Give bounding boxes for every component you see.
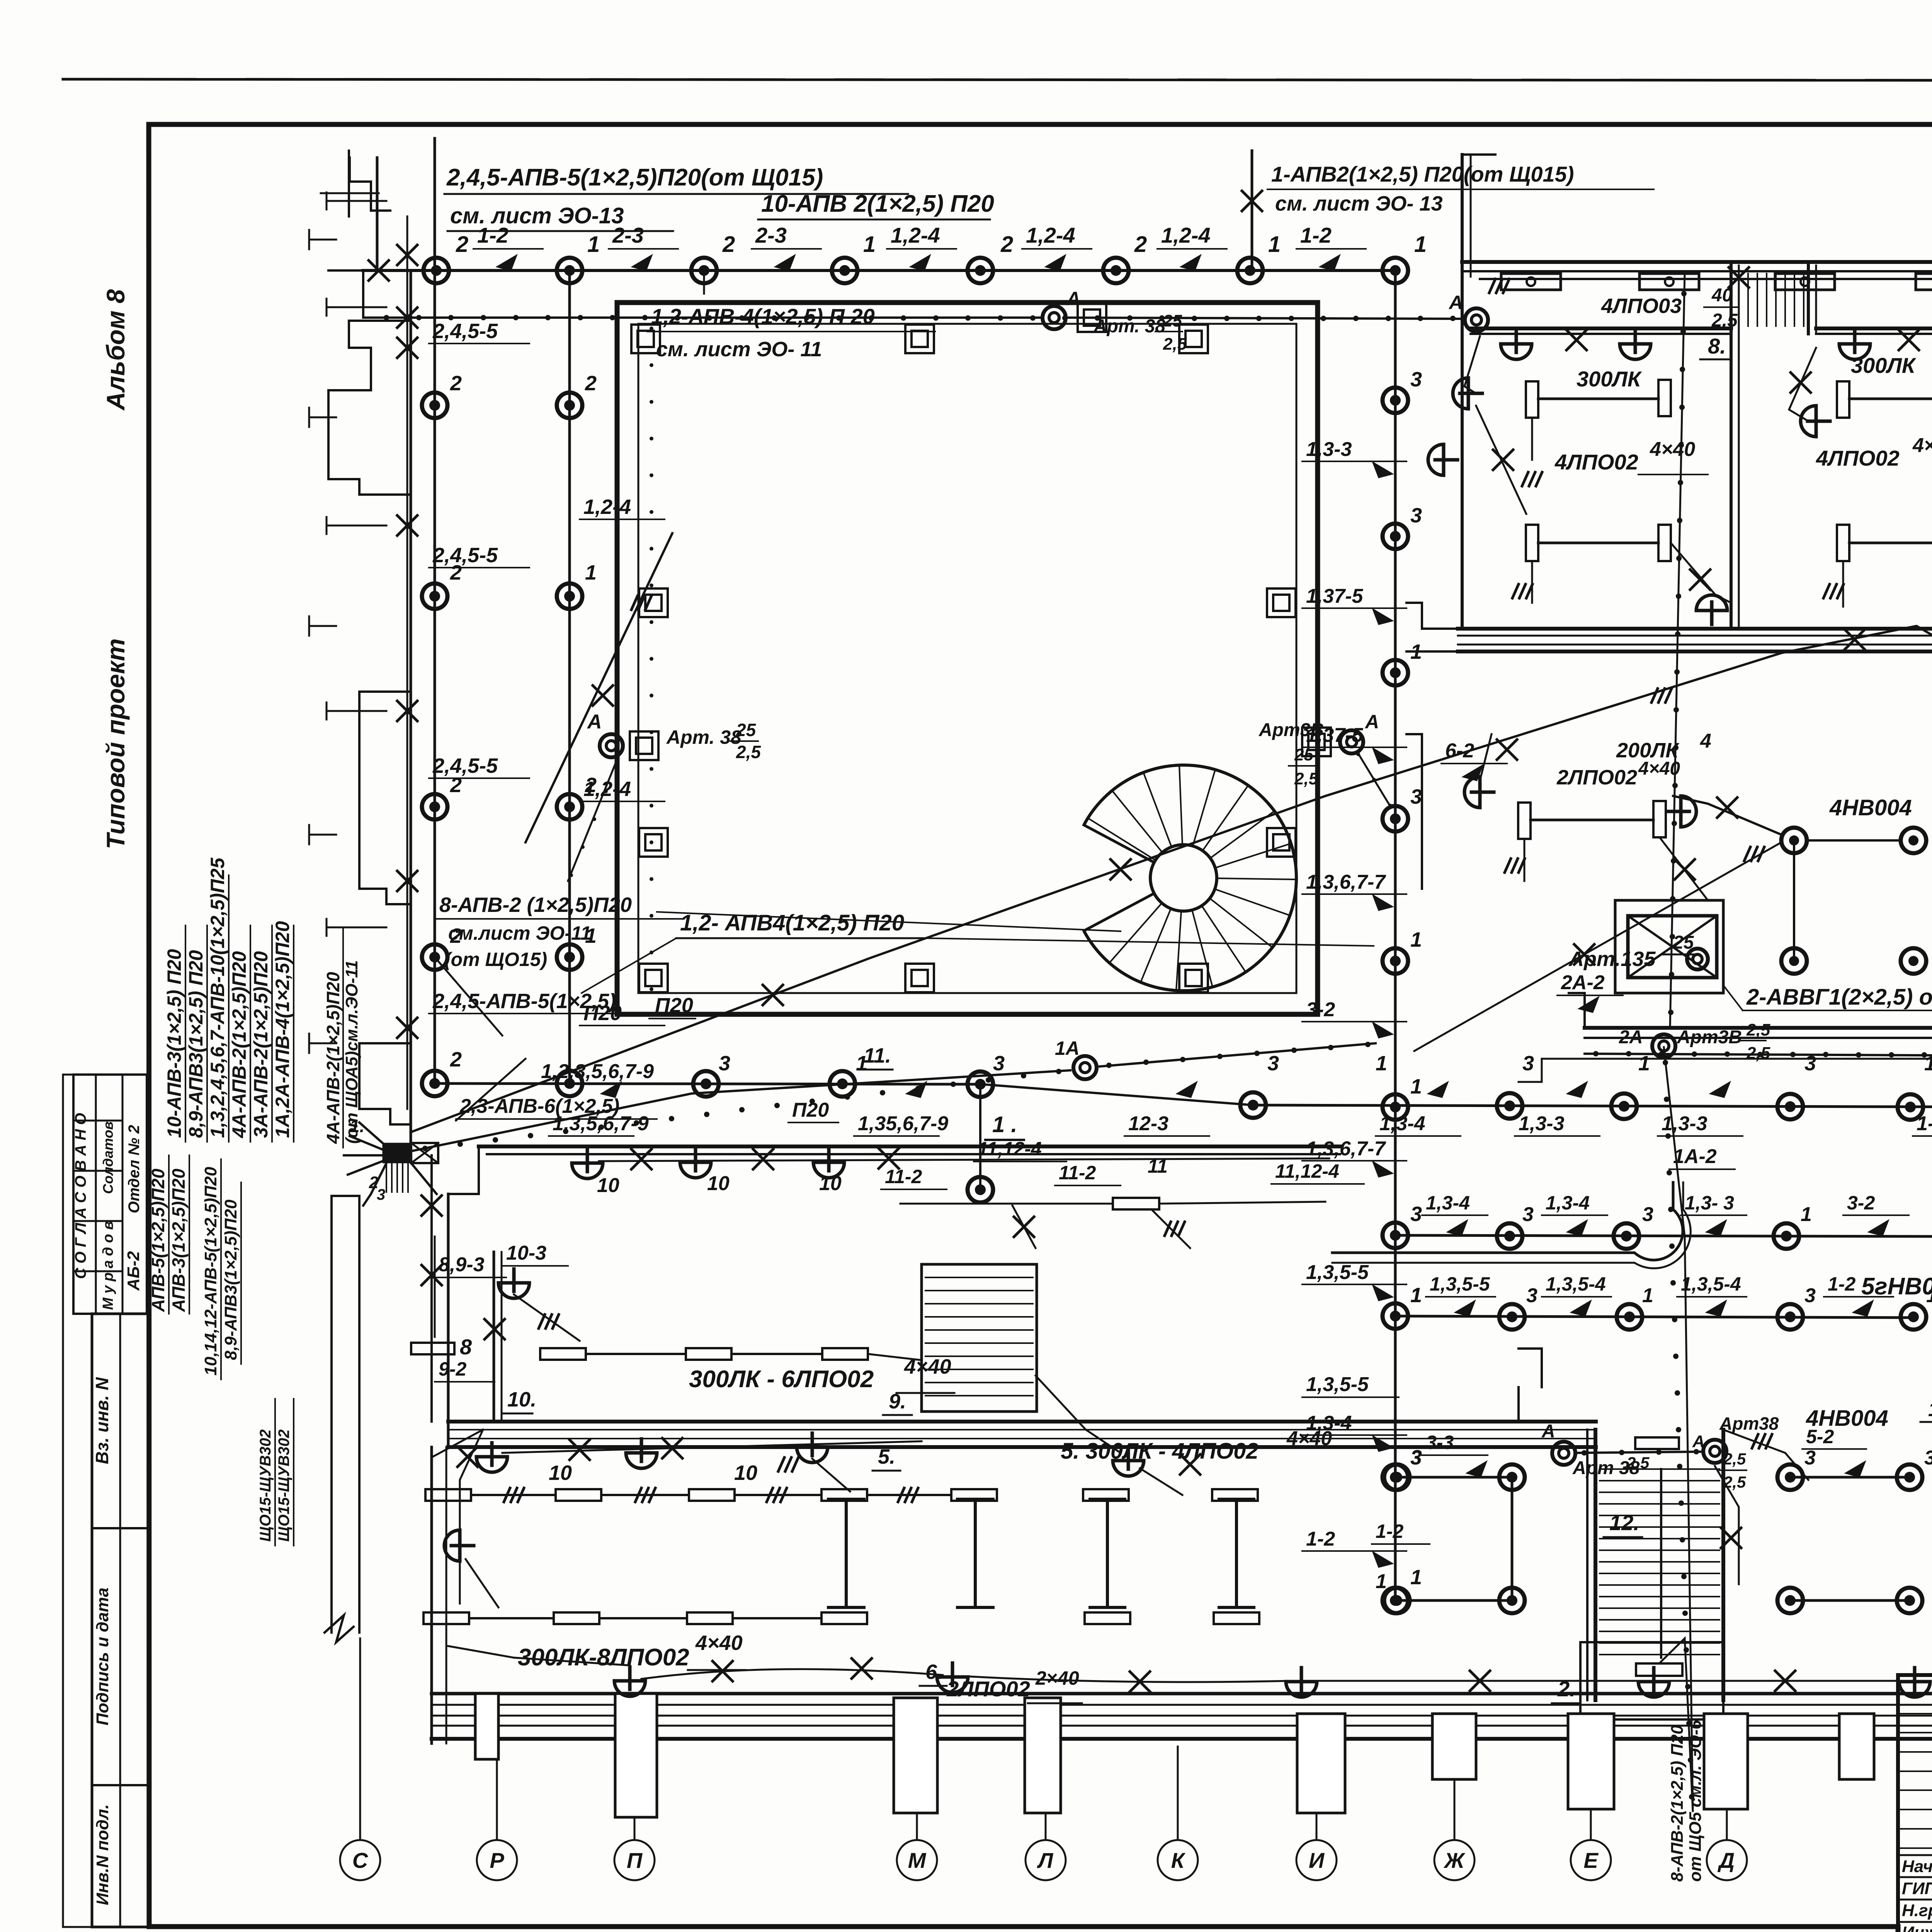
room 10 fixtures xyxy=(411,1343,454,1354)
small diag top xyxy=(435,957,502,1036)
svg-text:5.: 5. xyxy=(878,1445,895,1468)
room5 wlamps xyxy=(1113,1447,1144,1476)
A lamp hall inner xyxy=(600,734,623,757)
svg-text:3: 3 xyxy=(1410,504,1422,527)
svg-text:2-АВВГ1(2×2,5) от ЩО4: 2-АВВГ1(2×2,5) от ЩО4 xyxy=(1746,985,1932,1010)
svg-text:2,4,5-АПВ-5(1×2,5)П20(от Щ015): 2,4,5-АПВ-5(1×2,5)П20(от Щ015) xyxy=(446,164,823,191)
svg-text:4НВ004: 4НВ004 xyxy=(1806,1406,1888,1431)
A post top row xyxy=(1078,303,1106,332)
room 6 fixtures xyxy=(1518,803,1531,839)
svg-text:2ЛПО02: 2ЛПО02 xyxy=(1556,766,1637,789)
long dotted feeder vertical xyxy=(1670,272,1685,1028)
svg-text:10-АПВ-3(1×2,5) П20: 10-АПВ-3(1×2,5) П20 xyxy=(163,949,185,1138)
svg-text:300ЛК-8ЛПО02: 300ЛК-8ЛПО02 xyxy=(518,1644,689,1671)
svg-text:см. лист ЭО-13: см. лист ЭО-13 xyxy=(450,203,624,228)
wire room5 diag xyxy=(1414,842,1781,1051)
svg-text:3-2: 3-2 xyxy=(1306,998,1335,1021)
svg-text:1: 1 xyxy=(1410,1566,1422,1589)
svg-text:8,9-3: 8,9-3 xyxy=(439,1253,485,1276)
svg-text:4ЛПО03: 4ЛПО03 xyxy=(1601,294,1682,318)
svg-text:300ЛК - 6ЛПО02: 300ЛК - 6ЛПО02 xyxy=(689,1366,874,1393)
svg-text:1-АПВ2(1×2,5) П20(от Щ015): 1-АПВ2(1×2,5) П20(от Щ015) xyxy=(1271,162,1574,186)
svg-text:10-3: 10-3 xyxy=(506,1242,546,1264)
svg-text:Н.гр.ин.: Н.гр.ин. xyxy=(1902,1901,1932,1920)
svg-text:АБ-2: АБ-2 xyxy=(124,1251,143,1291)
svg-text:8.: 8. xyxy=(1708,334,1726,358)
svg-text:1-2: 1-2 xyxy=(1917,1112,1932,1135)
A lamp art3v left xyxy=(1302,728,1331,756)
svg-text:Ж: Ж xyxy=(1443,1848,1466,1872)
svg-text:5гНВ004: 5гНВ004 xyxy=(1861,1273,1932,1300)
lamp chain L2 xyxy=(568,270,571,1083)
svg-text:3: 3 xyxy=(1410,368,1422,391)
svg-text:4НВ004: 4НВ004 xyxy=(1829,795,1912,820)
svg-text:Вз. инв. N: Вз. инв. N xyxy=(92,1377,112,1464)
hall wall posts xyxy=(631,325,660,353)
svg-text:Е: Е xyxy=(1583,1848,1599,1872)
svg-text:11: 11 xyxy=(1148,1155,1168,1177)
hall outer wall xyxy=(617,303,1318,1014)
stair2 walls xyxy=(1730,265,1733,629)
svg-text:3: 3 xyxy=(1522,1052,1534,1075)
svg-text:1: 1 xyxy=(1376,1052,1387,1075)
west wall dim ticks xyxy=(327,200,386,202)
stair9 treads xyxy=(925,1277,1033,1278)
fix below corridor xyxy=(1113,1198,1159,1209)
distribution panel xyxy=(383,1143,411,1163)
west wall upper stub xyxy=(348,151,350,216)
bottom wall pilasters xyxy=(615,1694,657,1817)
lamp pairs right xyxy=(1790,1476,1910,1479)
stamp column inv-podp-vz xyxy=(92,1314,149,1927)
svg-text:3: 3 xyxy=(377,1186,385,1203)
wall block left vertical xyxy=(1461,155,1464,277)
svg-text:10.: 10. xyxy=(507,1388,536,1411)
column grid bubbles xyxy=(340,1840,380,1880)
room10 partition xyxy=(493,1252,495,1422)
svg-text:2,5: 2,5 xyxy=(1163,335,1187,354)
svg-text:5. 300ЛК - 4ЛПО02: 5. 300ЛК - 4ЛПО02 xyxy=(1061,1439,1259,1464)
A lamps stair12 xyxy=(1552,1442,1575,1465)
C axis colonnade xyxy=(330,1196,333,1633)
stair12 treads xyxy=(1600,1468,1719,1470)
svg-text:3: 3 xyxy=(1642,1203,1653,1226)
mid corridor walls xyxy=(1585,1026,1932,1030)
svg-text:К: К xyxy=(1171,1848,1186,1872)
svg-text:1,2-4: 1,2-4 xyxy=(583,495,631,519)
svg-text:3: 3 xyxy=(1267,1052,1279,1075)
svg-text:Д: Д xyxy=(1718,1848,1735,1872)
svg-text:Отдел № 2: Отдел № 2 xyxy=(126,1125,143,1213)
svg-text:8-АПВ-2 (1×2,5)П20: 8-АПВ-2 (1×2,5)П20 xyxy=(439,893,632,917)
corridor 11 lower walls xyxy=(448,1420,1596,1423)
svg-text:1-2: 1-2 xyxy=(1828,1273,1855,1295)
left wire to rooms xyxy=(430,1155,433,1422)
svg-text:10-АПВ 2(1×2,5) П20: 10-АПВ 2(1×2,5) П20 xyxy=(761,190,994,217)
svg-text:1,3,5-4: 1,3,5-4 xyxy=(1546,1273,1606,1295)
bottom external wall xyxy=(432,1692,1932,1696)
svg-text:И: И xyxy=(1309,1848,1325,1872)
svg-text:4×40: 4×40 xyxy=(904,1355,951,1378)
svg-text:4ЛПО02: 4ЛПО02 xyxy=(1816,446,1900,470)
svg-text:1,3,2,4,5,6,7-АПВ-10(1×2,5)П25: 1,3,2,4,5,6,7-АПВ-10(1×2,5)П25 xyxy=(207,857,228,1138)
lamp hall south xyxy=(968,1177,993,1202)
room 8 left wall xyxy=(1461,271,1464,629)
svg-text:Типовой проект: Типовой проект xyxy=(101,638,130,849)
stair12 landing xyxy=(1580,1642,1723,1719)
svg-text:1,35,6,7-9: 1,35,6,7-9 xyxy=(858,1112,948,1135)
svg-text:25: 25 xyxy=(1163,311,1182,330)
svg-text:1: 1 xyxy=(1410,928,1422,951)
svg-text:1: 1 xyxy=(1642,1284,1653,1307)
svg-text:А: А xyxy=(1364,711,1379,733)
svg-text:2: 2 xyxy=(722,232,735,257)
svg-text:1,3,5-5: 1,3,5-5 xyxy=(1430,1273,1490,1295)
feeder to 1A xyxy=(410,1070,1070,1151)
svg-text:2ЛПО02: 2ЛПО02 xyxy=(946,1677,1030,1701)
svg-text:4ЛПО02: 4ЛПО02 xyxy=(1554,450,1638,474)
svg-text:(от ЩОА5)см.л.ЭО-11: (от ЩОА5)см.л.ЭО-11 xyxy=(342,960,361,1144)
svg-text:1,3-3: 1,3-3 xyxy=(1662,1112,1708,1135)
svg-text:10: 10 xyxy=(819,1172,842,1195)
svg-text:3: 3 xyxy=(1804,1284,1816,1307)
art135 envelope xyxy=(1628,916,1717,978)
svg-text:1-2: 1-2 xyxy=(1306,1528,1335,1550)
svg-text:3: 3 xyxy=(1410,1202,1422,1226)
svg-text:1: 1 xyxy=(1410,1284,1422,1307)
room4 left wire xyxy=(460,1430,483,1604)
svg-text:П20: П20 xyxy=(792,1099,829,1121)
corridor lower lamps xyxy=(476,1443,507,1472)
svg-text:2,5: 2,5 xyxy=(736,742,761,762)
svg-text:1,3,5-4: 1,3,5-4 xyxy=(1681,1273,1741,1295)
svg-text:10: 10 xyxy=(549,1461,572,1485)
svg-text:11,12-4: 11,12-4 xyxy=(978,1138,1042,1160)
room7 divider xyxy=(1731,334,1731,629)
room 9 fixture row xyxy=(540,1348,586,1360)
svg-text:ЩО15-ЩУВ302: ЩО15-ЩУВ302 xyxy=(257,1429,274,1542)
svg-text:2,5: 2,5 xyxy=(1723,1450,1746,1468)
west dim ticks 2 xyxy=(309,239,336,241)
mid corridor wire xyxy=(1585,1054,1932,1056)
svg-text:4А-АПВ-2(1×2,5)П20: 4А-АПВ-2(1×2,5)П20 xyxy=(323,972,343,1144)
svg-text:1,3,6,7-7: 1,3,6,7-7 xyxy=(1306,1138,1386,1160)
svg-text:1,3- 3: 1,3- 3 xyxy=(1685,1192,1734,1214)
svg-text:4×40: 4×40 xyxy=(695,1631,743,1655)
stamp table soglasovano xyxy=(73,1075,147,1314)
svg-text:см. лист ЭО- 13: см. лист ЭО- 13 xyxy=(1275,192,1442,215)
svg-text:С О Г Л А С О В А Н О: С О Г Л А С О В А Н О xyxy=(72,1113,89,1279)
svg-text:8: 8 xyxy=(460,1335,472,1359)
room3 upper walls xyxy=(1421,734,1423,889)
svg-text:9.: 9. xyxy=(889,1390,906,1413)
misc crosses top xyxy=(369,260,389,281)
svg-text:10: 10 xyxy=(734,1461,757,1485)
svg-text:10: 10 xyxy=(597,1174,619,1197)
stair9 well xyxy=(922,1264,1037,1412)
svg-text:2,5: 2,5 xyxy=(1294,769,1318,788)
stair12 top walls xyxy=(1519,1387,1549,1422)
room 5 lamps xyxy=(1781,828,1807,853)
feeder drop line xyxy=(1251,151,1253,270)
svg-text:25: 25 xyxy=(736,720,757,740)
svg-text:1: 1 xyxy=(1410,1075,1422,1098)
svg-text:4А-АПВ-2(1×2,5)П20: 4А-АПВ-2(1×2,5)П20 xyxy=(228,951,250,1138)
lamp chain L1 xyxy=(434,270,436,1083)
svg-text:2,5: 2,5 xyxy=(1711,310,1738,331)
bottom wall lamps xyxy=(614,1667,645,1696)
wall north corridor xyxy=(1462,260,1932,264)
svg-text:2: 2 xyxy=(450,372,462,395)
svg-text:1А,2А-АПВ-4(1×2,5)П20: 1А,2А-АПВ-4(1×2,5)П20 xyxy=(272,921,293,1138)
lamp chain C1 xyxy=(1394,270,1397,1600)
svg-text:1,2- АПВ4(1×2,5) П20: 1,2- АПВ4(1×2,5) П20 xyxy=(680,910,904,935)
left lower outer wall xyxy=(430,1447,433,1743)
svg-text:С: С xyxy=(352,1848,369,1872)
room4 fixture row mid xyxy=(425,1489,471,1501)
svg-text:2,3-АПВ-6(1×2,5): 2,3-АПВ-6(1×2,5) xyxy=(459,1095,619,1117)
hall inner dotted wire xyxy=(650,327,653,330)
room 7 fixtures xyxy=(1839,330,1870,359)
svg-text:2,5: 2,5 xyxy=(1723,1473,1746,1491)
svg-text:П: П xyxy=(627,1848,643,1872)
hall inner wall face xyxy=(638,324,1296,993)
svg-text:3: 3 xyxy=(1924,1447,1932,1469)
svg-text:А: А xyxy=(1541,1421,1555,1442)
svg-text:1,2-4: 1,2-4 xyxy=(583,777,631,801)
svg-text:11.: 11. xyxy=(864,1044,891,1067)
west external wall xyxy=(376,158,379,270)
svg-text:1,2-4: 1,2-4 xyxy=(1161,223,1211,247)
corridor11 left jog xyxy=(1406,603,1458,629)
svg-text:3: 3 xyxy=(1526,1284,1537,1307)
svg-text:1,2-АПВ-4(1×2,5) П 20: 1,2-АПВ-4(1×2,5) П 20 xyxy=(651,304,875,328)
svg-text:Подпись и дата: Подпись и дата xyxy=(93,1588,112,1726)
svg-text:1,3-3: 1,3-3 xyxy=(1306,438,1352,461)
svg-text:М у р а д о в: М у р а д о в xyxy=(100,1221,116,1310)
svg-text:П20: П20 xyxy=(655,994,693,1017)
stair2 treads xyxy=(1747,274,1749,326)
art135 closet walls xyxy=(1615,900,1723,993)
lamp row y3197 xyxy=(1395,1235,1932,1236)
svg-text:см.лист ЭО-11: см.лист ЭО-11 xyxy=(448,922,591,944)
svg-text:1,3,5-5: 1,3,5-5 xyxy=(1306,1373,1369,1396)
svg-text:1: 1 xyxy=(1801,1203,1812,1226)
svg-text:2×40: 2×40 xyxy=(1035,1667,1079,1689)
svg-text:1,2,3,5,6,7-9: 1,2,3,5,6,7-9 xyxy=(541,1060,654,1083)
svg-text:11,12-4: 11,12-4 xyxy=(1275,1160,1339,1182)
svg-text:3: 3 xyxy=(719,1052,730,1075)
spiral staircase xyxy=(1071,765,1296,991)
svg-text:А: А xyxy=(1692,1432,1705,1451)
svg-text:Л: Л xyxy=(1037,1848,1054,1872)
wires near stair12 xyxy=(1659,1638,1693,1811)
diag wire L2 xyxy=(526,533,672,842)
svg-text:1,2-4: 1,2-4 xyxy=(1026,223,1075,247)
south corridor hairpin xyxy=(1332,1182,1683,1260)
lamp row y3406 xyxy=(1397,1316,1913,1318)
svg-text:11-2: 11-2 xyxy=(1059,1162,1096,1184)
svg-text:11-2: 11-2 xyxy=(885,1166,922,1187)
svg-text:3: 3 xyxy=(1522,1203,1534,1226)
svg-text:1: 1 xyxy=(1410,640,1422,663)
svg-text:10: 10 xyxy=(707,1172,730,1195)
svg-text:3: 3 xyxy=(1410,1447,1422,1469)
svg-text:1: 1 xyxy=(1268,232,1281,257)
wire to corner lamp xyxy=(1781,626,1932,653)
svg-text:2,5: 2,5 xyxy=(1746,1020,1770,1039)
svg-text:3: 3 xyxy=(993,1052,1005,1075)
svg-text:А: А xyxy=(1448,292,1463,313)
svg-text:6.: 6. xyxy=(925,1660,943,1684)
svg-text:12-3: 12-3 xyxy=(1128,1112,1168,1135)
svg-text:Инв.N подл.: Инв.N подл. xyxy=(93,1804,112,1905)
svg-text:2,5: 2,5 xyxy=(1626,1454,1650,1472)
svg-text:2,4,5-5: 2,4,5-5 xyxy=(432,320,498,343)
svg-text:2: 2 xyxy=(450,1048,462,1071)
room 8 fixtures xyxy=(1501,330,1532,359)
svg-text:2,4,5-5: 2,4,5-5 xyxy=(432,754,498,777)
svg-text:(от ЩО15): (от ЩО15) xyxy=(444,949,547,970)
svg-text:Арт3В: Арт3В xyxy=(1677,1027,1742,1048)
svg-text:П20: П20 xyxy=(583,1002,622,1025)
svg-text:ЩО15-ЩУВ302: ЩО15-ЩУВ302 xyxy=(276,1429,293,1542)
svg-text:9-2: 9-2 xyxy=(439,1358,466,1380)
middle lamp row xyxy=(435,1083,981,1084)
svg-text:М: М xyxy=(908,1848,927,1872)
svg-text:2-3: 2-3 xyxy=(755,223,787,247)
svg-text:3: 3 xyxy=(1804,1447,1816,1469)
svg-text:1-2: 1-2 xyxy=(1300,223,1332,247)
svg-text:12.: 12. xyxy=(1609,1510,1639,1535)
svg-text:300ЛК: 300ЛК xyxy=(1577,367,1642,391)
south corridor wlamps xyxy=(572,1149,603,1179)
svg-text:2,5: 2,5 xyxy=(1746,1044,1770,1063)
svg-text:1: 1 xyxy=(1638,1052,1650,1075)
svg-text:АПВ-3(1×2,5)П20: АПВ-3(1×2,5)П20 xyxy=(168,1168,189,1312)
svg-text:Арт. 38: Арт. 38 xyxy=(1093,316,1165,337)
corridor 11 upper walls xyxy=(1458,627,1932,631)
corridor 11 fixtures xyxy=(1501,274,1561,290)
svg-text:1-2: 1-2 xyxy=(1376,1520,1403,1542)
svg-text:Инжен.: Инжен. xyxy=(1902,1923,1932,1932)
stamp header strip xyxy=(63,1074,73,1076)
hall corner wire xyxy=(362,270,364,318)
top lamp row xyxy=(363,269,1395,272)
svg-text:2: 2 xyxy=(1000,232,1013,257)
svg-text:300ЛК: 300ЛК xyxy=(1851,353,1917,378)
svg-text:Альбом 8: Альбом 8 xyxy=(101,289,130,411)
chain L1 riser to top xyxy=(434,138,436,270)
svg-text:100: 100 xyxy=(1928,1398,1932,1421)
svg-text:2А: 2А xyxy=(1619,1027,1643,1048)
svg-text:3А-АПВ-2(1×2,5)П20: 3А-АПВ-2(1×2,5)П20 xyxy=(250,951,272,1138)
svg-text:1,3-4: 1,3-4 xyxy=(1379,1112,1425,1135)
svg-text:4×40: 4×40 xyxy=(1650,438,1695,461)
svg-text:1: 1 xyxy=(863,232,876,257)
ceiling wire A row xyxy=(363,316,1043,319)
dotted 2A drop xyxy=(1664,1047,1693,1811)
diag wire small xyxy=(456,1059,526,1121)
svg-text:1,3,5-5: 1,3,5-5 xyxy=(1306,1261,1369,1284)
room4 fixture row low xyxy=(423,1612,469,1624)
svg-text:1,37-5: 1,37-5 xyxy=(1306,585,1364,607)
svg-text:25: 25 xyxy=(1294,745,1313,764)
svg-text:1: 1 xyxy=(1926,1284,1932,1307)
bottom wire to panel xyxy=(448,1646,514,1658)
room4 ibeams xyxy=(845,1499,848,1607)
svg-text:ГИП: ГИП xyxy=(1902,1879,1932,1898)
svg-text:4: 4 xyxy=(1700,730,1711,752)
sheet top edge line xyxy=(63,79,1932,81)
svg-text:8,9-АПВ3(1×2,5) П20: 8,9-АПВ3(1×2,5) П20 xyxy=(185,950,207,1138)
room 8-7 top wall xyxy=(1471,327,1731,330)
svg-text:1,3-3: 1,3-3 xyxy=(1519,1112,1565,1135)
svg-text:2: 2 xyxy=(456,232,468,257)
room1 south corridor xyxy=(479,1145,1340,1148)
svg-text:Солдатов: Солдатов xyxy=(100,1121,116,1194)
svg-text:4×40: 4×40 xyxy=(1286,1427,1332,1450)
svg-text:8,9-АПВ3(1×2,5)П20: 8,9-АПВ3(1×2,5)П20 xyxy=(221,1199,240,1360)
svg-text:2А-2: 2А-2 xyxy=(1561,971,1605,994)
svg-text:1,3-4: 1,3-4 xyxy=(1546,1192,1590,1214)
svg-text:1,3-4: 1,3-4 xyxy=(1426,1192,1470,1214)
art135 lamp xyxy=(1687,949,1708,969)
title block xyxy=(1898,1675,1932,1932)
svg-text:3-2: 3-2 xyxy=(1847,1192,1875,1214)
svg-text:см. лист ЭО- 11: см. лист ЭО- 11 xyxy=(656,338,822,361)
svg-text:Р: Р xyxy=(490,1848,504,1872)
svg-text:4×40: 4×40 xyxy=(1912,434,1932,457)
room5 center fixtures xyxy=(1083,1489,1129,1501)
svg-text:А: А xyxy=(587,711,602,733)
svg-text:1: 1 xyxy=(587,232,600,257)
stair12 fixtures xyxy=(1635,1437,1679,1449)
svg-text:1: 1 xyxy=(585,561,597,584)
svg-text:Нач. отд.: Нач. отд. xyxy=(1902,1857,1932,1876)
stair12 walls xyxy=(1594,1430,1597,1700)
lamp pairs left xyxy=(1397,1476,1512,1479)
room9 left wall xyxy=(447,1194,450,1447)
svg-text:2,4,5-5: 2,4,5-5 xyxy=(432,544,498,567)
svg-text:4×40: 4×40 xyxy=(1638,759,1680,779)
svg-text:1,3,6,7-7: 1,3,6,7-7 xyxy=(1306,871,1386,893)
svg-text:3: 3 xyxy=(1410,785,1422,808)
svg-text:8-АПВ-2(1×2,5) П20: 8-АПВ-2(1×2,5) П20 xyxy=(1668,1725,1687,1882)
svg-text:1: 1 xyxy=(1414,232,1427,257)
svg-text:2: 2 xyxy=(585,372,597,395)
svg-text:1А: 1А xyxy=(1055,1037,1080,1059)
switch drop line L0 xyxy=(406,216,408,1109)
main diagonal wire xyxy=(411,653,1781,1132)
svg-text:АПВ-5(1×2,5)П20: АПВ-5(1×2,5)П20 xyxy=(148,1168,168,1312)
svg-text:Арт3В: Арт3В xyxy=(1259,720,1324,740)
svg-text:1 .: 1 . xyxy=(992,1112,1017,1137)
svg-text:1А-2: 1А-2 xyxy=(1673,1145,1717,1168)
stub xyxy=(703,270,705,294)
svg-text:10,14,12-АПВ-5(1×2,5)П20: 10,14,12-АПВ-5(1×2,5)П20 xyxy=(201,1167,220,1376)
svg-text:от ЩО5 см.л. ЭО-6: от ЩО5 см.л. ЭО-6 xyxy=(1686,1720,1705,1882)
svg-text:1: 1 xyxy=(1376,1570,1387,1593)
svg-text:2: 2 xyxy=(1134,232,1147,257)
svg-text:1,2-4: 1,2-4 xyxy=(891,223,940,247)
svg-text:Арт. 38: Арт. 38 xyxy=(666,726,742,748)
svg-text:3-3: 3-3 xyxy=(1426,1432,1454,1453)
